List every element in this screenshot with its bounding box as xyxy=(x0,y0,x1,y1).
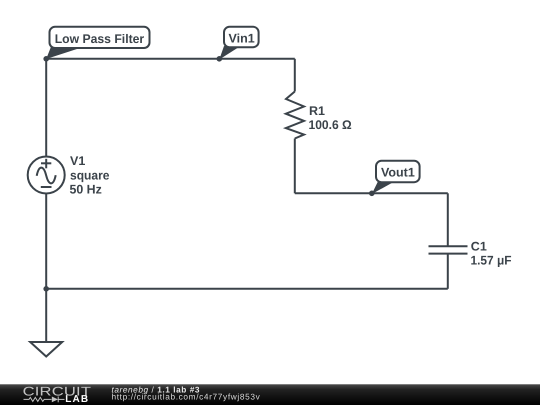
svg-text:V1: V1 xyxy=(70,154,85,168)
wire C1 bottom lead xyxy=(447,254,449,289)
svg-text:100.6 Ω: 100.6 Ω xyxy=(309,118,352,132)
voltage source V1 xyxy=(28,157,65,194)
wire top horizontal from node A to R1 branch xyxy=(46,58,295,60)
wire V1 top lead xyxy=(45,59,47,157)
wire C1 top lead xyxy=(447,193,449,246)
node Vin1 junction dot xyxy=(217,56,223,62)
svg-text:50 Hz: 50 Hz xyxy=(70,183,102,197)
wire V1 bottom lead xyxy=(45,194,47,289)
svg-text:R1: R1 xyxy=(309,104,325,118)
resistor R1 xyxy=(286,92,304,139)
svg-text:C1: C1 xyxy=(471,239,487,253)
CircuitLab logo resistor-diode glyph xyxy=(24,397,65,403)
label tail Vin1 xyxy=(219,46,239,60)
node Vout1 junction dot xyxy=(369,191,375,197)
label tail Vout1 xyxy=(372,181,394,194)
capacitor C1 xyxy=(429,246,468,253)
wire bottom horizontal xyxy=(46,288,448,290)
svg-text:1.57 μF: 1.57 μF xyxy=(471,253,512,267)
wire R1 bottom lead xyxy=(294,139,296,194)
svg-text:square: square xyxy=(70,168,110,182)
ground xyxy=(30,342,62,357)
wire R1 top lead xyxy=(294,59,296,92)
node bottom-left junction dot xyxy=(43,286,49,292)
node A junction dot xyxy=(43,56,49,62)
svg-text:Vout1: Vout1 xyxy=(381,166,415,180)
node label Low Pass Filter xyxy=(50,27,150,48)
wire ground lead xyxy=(45,289,47,342)
svg-text:Low Pass Filter: Low Pass Filter xyxy=(55,32,145,46)
svg-text:LAB: LAB xyxy=(65,394,89,405)
footer bar xyxy=(0,384,540,405)
node label Vin1 xyxy=(224,27,259,47)
svg-text:http://circuitlab.com/c4r77yfw: http://circuitlab.com/c4r77yfwj853v xyxy=(112,392,261,402)
wire middle horizontal to C1 branch xyxy=(295,192,448,194)
svg-text:Vin1: Vin1 xyxy=(229,32,255,46)
label tail Low Pass Filter xyxy=(46,47,80,59)
node label Vout1 xyxy=(376,161,420,182)
